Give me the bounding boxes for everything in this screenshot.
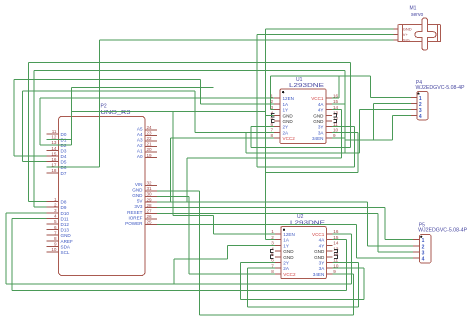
pin 3 of P5 bbox=[413, 251, 420, 253]
svg-text:1: 1 bbox=[422, 238, 425, 244]
wire 5V horizontal long bbox=[157, 201, 368, 203]
svg-text:VCC1: VCC1 bbox=[311, 96, 324, 101]
svg-text:2: 2 bbox=[271, 235, 274, 240]
pin 1 of P4 bbox=[411, 96, 417, 98]
servo body divider right bbox=[436, 25, 438, 42]
svg-text:GND: GND bbox=[283, 119, 294, 124]
wire U2 VCC1 drop bbox=[350, 234, 352, 284]
svg-text:8: 8 bbox=[54, 236, 57, 241]
svg-text:2A: 2A bbox=[283, 266, 290, 271]
component P4 connector body bbox=[417, 92, 428, 120]
pin 3 D10 of P2 bbox=[47, 212, 59, 214]
wire U1 VCC1 hook bbox=[332, 97, 339, 99]
svg-text:6: 6 bbox=[54, 225, 57, 230]
svg-text:GND: GND bbox=[313, 113, 324, 118]
pin 1 D8 of P2 bbox=[47, 201, 59, 203]
wire U2 3Y hook bbox=[332, 262, 358, 264]
wire servo V+ horizontal bbox=[257, 33, 394, 35]
svg-text:28: 28 bbox=[147, 203, 153, 208]
svg-text:D9: D9 bbox=[61, 205, 67, 210]
wire D1 to riser bbox=[47, 138, 72, 140]
wire U2 1A feed bbox=[266, 239, 275, 241]
svg-text:3: 3 bbox=[419, 108, 422, 114]
wire U2 3A hook bbox=[332, 267, 364, 269]
wire P5 pin3 drop bbox=[377, 213, 379, 252]
svg-text:GND: GND bbox=[283, 255, 294, 260]
svg-text:3: 3 bbox=[54, 208, 57, 213]
wire D11 bottom horizontal bbox=[12, 289, 347, 291]
pin 13 GND of U1 bbox=[326, 114, 332, 116]
pin 9 34EN of U2 bbox=[326, 273, 332, 275]
wire mid m2 bbox=[246, 152, 360, 154]
wire D2 mid branch bbox=[72, 110, 266, 112]
wire D4 to U1 1A bbox=[201, 103, 274, 105]
wire D8 long drop bbox=[350, 62, 352, 147]
svg-text:7: 7 bbox=[54, 230, 57, 235]
wire D4 vertical left bbox=[13, 80, 15, 157]
pin 8 VCC2 of U2 bbox=[275, 273, 281, 275]
svg-text:10: 10 bbox=[333, 128, 339, 133]
svg-text:SCL: SCL bbox=[61, 250, 70, 255]
wire U2 1Y jog bbox=[174, 258, 227, 260]
svg-text:9: 9 bbox=[54, 242, 57, 247]
wire U1 VCC1 riser bbox=[338, 76, 340, 98]
wire D2 horizontal to U1 12EN bbox=[40, 97, 274, 99]
pin 11 3Y of U1 bbox=[326, 126, 332, 128]
pin 14 D3 of P2 bbox=[47, 150, 59, 152]
pin 3 of P4 bbox=[411, 109, 417, 111]
svg-text:4: 4 bbox=[419, 114, 422, 120]
svg-text:U1: U1 bbox=[296, 77, 303, 83]
wire U1 1Y hook bbox=[271, 109, 274, 111]
wire U2 VCC1 hook bbox=[332, 233, 351, 235]
pin 13 GND of U2 bbox=[326, 250, 332, 252]
wire GND pin30 bbox=[157, 196, 189, 198]
wire P4 pin1 riser bbox=[370, 76, 372, 98]
GND bracket U2 pin12 bbox=[334, 255, 337, 258]
wire D5 riser down bbox=[194, 91, 196, 132]
pin 6 2Y of U2 bbox=[275, 261, 281, 263]
wire U2 2A feed bbox=[248, 267, 275, 269]
servo pin GND bbox=[394, 28, 399, 30]
pin 9 SDA of P2 bbox=[47, 245, 59, 247]
svg-text:M1: M1 bbox=[410, 5, 417, 11]
svg-text:2: 2 bbox=[422, 245, 425, 251]
svg-text:14: 14 bbox=[333, 241, 339, 246]
wire U1 2A drop bbox=[245, 132, 247, 153]
wire U1 3A hook bbox=[332, 131, 358, 133]
svg-text:22: 22 bbox=[147, 136, 153, 141]
wire servo GND drop bbox=[265, 29, 267, 240]
svg-text:1A: 1A bbox=[283, 238, 290, 243]
wire D8 horizontal top bbox=[28, 61, 350, 63]
pin 12 D1 of P2 bbox=[47, 138, 59, 140]
wire D8 to pin bbox=[28, 201, 46, 203]
pin 15 4A of U1 bbox=[326, 103, 332, 105]
svg-text:A2: A2 bbox=[137, 143, 143, 148]
svg-text:12EN: 12EN bbox=[283, 232, 295, 237]
pin 20 A1 of P2 bbox=[145, 151, 157, 153]
wire U2 3A riser bbox=[363, 268, 365, 299]
svg-text:D8: D8 bbox=[61, 200, 67, 205]
svg-text:15: 15 bbox=[333, 235, 339, 240]
wire 3V3 horizontal long bbox=[157, 207, 385, 209]
svg-text:GND: GND bbox=[61, 233, 72, 238]
pin 14 4Y of U2 bbox=[326, 244, 332, 246]
svg-text:12EN: 12EN bbox=[283, 96, 295, 101]
wire D9 horizontal top bbox=[34, 69, 345, 71]
svg-text:32: 32 bbox=[147, 181, 153, 186]
svg-text:IOREF: IOREF bbox=[128, 215, 142, 220]
svg-text:31: 31 bbox=[147, 186, 153, 191]
wire GND bottom horizontal bbox=[200, 314, 354, 316]
wire D1 long horizontal bbox=[72, 86, 214, 88]
svg-text:L293DNE: L293DNE bbox=[290, 220, 326, 226]
pin 23 A4 of P2 bbox=[145, 134, 157, 136]
pin 16 D5 of P2 bbox=[47, 161, 59, 163]
wire U1 34EN hook bbox=[332, 137, 345, 139]
wire U2 2Y drop bbox=[240, 263, 242, 300]
wire P5 pin3 feed bbox=[378, 251, 413, 253]
wire U1 4Y drop bbox=[341, 110, 343, 159]
wire U1 3A drop bbox=[357, 132, 359, 172]
wire U2 4A drop bbox=[346, 240, 348, 291]
svg-text:1Y: 1Y bbox=[283, 243, 289, 248]
pin 11 3Y of U2 bbox=[326, 261, 332, 263]
wire 5V riser to U1 VCC2 bbox=[170, 138, 172, 202]
svg-text:10: 10 bbox=[51, 247, 57, 252]
svg-text:20: 20 bbox=[147, 147, 153, 152]
GND bracket U1 pin12 bbox=[333, 119, 336, 122]
wire D2 drop mid bbox=[172, 111, 174, 215]
svg-text:25: 25 bbox=[147, 220, 153, 225]
svg-text:16: 16 bbox=[333, 93, 339, 98]
pin 1 of P5 bbox=[413, 239, 420, 241]
svg-text:AREF: AREF bbox=[61, 239, 73, 244]
wire bottom b4 bbox=[248, 306, 359, 308]
wire GND30 drop to U2 VCC2 bbox=[188, 197, 190, 274]
wire D2 vertical left bbox=[39, 98, 41, 145]
wire U1 4Y hook bbox=[332, 109, 342, 111]
svg-text:3Y: 3Y bbox=[318, 125, 324, 130]
servo horn cross bbox=[415, 18, 436, 50]
svg-text:WJ2EDGVC-5.08-4P: WJ2EDGVC-5.08-4P bbox=[416, 85, 466, 91]
wire D10 vertical left bbox=[5, 213, 7, 284]
svg-text:GND: GND bbox=[313, 119, 324, 124]
svg-text:WJ2EDGVC-5.08-4P: WJ2EDGVC-5.08-4P bbox=[418, 228, 468, 234]
pin 4 of P4 bbox=[411, 115, 417, 117]
svg-text:18: 18 bbox=[51, 168, 57, 173]
wire U1 2Y bbox=[251, 126, 274, 128]
svg-text:7: 7 bbox=[270, 128, 273, 133]
pin 5 D12 of P2 bbox=[47, 223, 59, 225]
svg-text:5: 5 bbox=[54, 219, 57, 224]
wire GND pin31 bbox=[157, 190, 200, 192]
svg-text:U2: U2 bbox=[297, 214, 304, 220]
pin 19 A0 of P2 bbox=[145, 157, 157, 159]
svg-text:D3: D3 bbox=[61, 149, 67, 154]
wire P4 pin3 riser bbox=[359, 110, 361, 154]
pin 28 3V3 of P2 bbox=[145, 207, 157, 209]
svg-text:D10: D10 bbox=[61, 211, 70, 216]
svg-text:POWER: POWER bbox=[125, 221, 143, 226]
svg-text:26: 26 bbox=[147, 214, 153, 219]
svg-text:9: 9 bbox=[333, 133, 336, 138]
wire D2 to pin bbox=[40, 144, 72, 146]
GND bracket U1 pin5 bbox=[272, 119, 275, 122]
wire bottom b3 bbox=[241, 299, 364, 301]
pin 2 of P5 bbox=[413, 245, 420, 247]
svg-text:GND: GND bbox=[132, 193, 143, 198]
pin 1 dot P4 bbox=[417, 93, 419, 95]
pin 7 2A of U1 bbox=[274, 131, 280, 133]
svg-text:15: 15 bbox=[333, 99, 339, 104]
svg-text:13: 13 bbox=[333, 246, 339, 251]
wire D5 to pin bbox=[22, 161, 46, 163]
svg-text:A0: A0 bbox=[137, 154, 143, 159]
svg-text:L293DNE: L293DNE bbox=[289, 83, 325, 89]
pin 27 RESET of P2 bbox=[145, 212, 157, 214]
svg-text:11: 11 bbox=[52, 129, 57, 134]
pin 6 2Y of U1 bbox=[274, 126, 280, 128]
wire D9 vertical left bbox=[33, 70, 35, 207]
svg-text:A5: A5 bbox=[137, 126, 143, 131]
pin 2 1A of U1 bbox=[274, 103, 280, 105]
wire D8 vertical left bbox=[27, 62, 29, 201]
wire GND bus vertical bbox=[199, 191, 201, 315]
svg-text:VCC2: VCC2 bbox=[283, 272, 296, 277]
wire D4 to pin bbox=[14, 155, 47, 157]
svg-text:1A: 1A bbox=[283, 102, 290, 107]
svg-text:27: 27 bbox=[147, 209, 153, 214]
GND bracket U2 pin5 bbox=[270, 255, 273, 258]
svg-text:GND: GND bbox=[283, 113, 294, 118]
wire U2 VCC2 feed bbox=[189, 273, 275, 275]
wire U1 2Y drop bbox=[250, 127, 252, 148]
wire D10 to pin bbox=[6, 212, 47, 214]
wire D11 vertical left bbox=[11, 218, 13, 290]
svg-text:30: 30 bbox=[147, 192, 153, 197]
pin 11 D0 of P2 bbox=[47, 133, 59, 135]
wire D9 riser to U1 4A bbox=[344, 70, 346, 153]
pin 10 SCL of P2 bbox=[47, 251, 59, 253]
pin 1 12EN of U2 bbox=[275, 233, 281, 235]
pin 12 GND of U1 bbox=[326, 120, 332, 122]
pin 5 GND of U1 bbox=[274, 120, 280, 122]
wire mid m3 bbox=[187, 157, 342, 159]
pin 10 3A of U2 bbox=[326, 267, 332, 269]
svg-text:3A: 3A bbox=[318, 130, 325, 135]
svg-text:24: 24 bbox=[147, 125, 153, 130]
pin 29 5V of P2 bbox=[145, 201, 157, 203]
svg-text:3Y: 3Y bbox=[319, 260, 325, 265]
pin 16 VCC1 of U2 bbox=[326, 233, 332, 235]
wire U2 2A drop bbox=[247, 268, 249, 307]
svg-text:12: 12 bbox=[51, 135, 57, 140]
component P2 UNO_R3 body bbox=[59, 116, 146, 275]
svg-text:4A: 4A bbox=[319, 238, 326, 243]
svg-text:GND: GND bbox=[403, 26, 412, 31]
svg-text:A1: A1 bbox=[137, 149, 143, 154]
pin 8 AREF of P2 bbox=[47, 240, 59, 242]
svg-text:A3: A3 bbox=[137, 137, 143, 142]
wire servo V+ drop bbox=[256, 34, 258, 167]
svg-text:GND: GND bbox=[314, 255, 325, 260]
pin 14 4Y of U1 bbox=[326, 109, 332, 111]
svg-text:VIN: VIN bbox=[135, 182, 143, 187]
wire mid m5 bbox=[266, 172, 359, 174]
pin 4 of P5 bbox=[413, 257, 420, 259]
wire U2 1Y drop bbox=[226, 245, 228, 259]
servo pin SIG bbox=[394, 39, 399, 41]
svg-text:4Y: 4Y bbox=[318, 108, 324, 113]
svg-text:4: 4 bbox=[271, 246, 274, 251]
wire P4 pin4 riser bbox=[391, 116, 393, 141]
pin 6 D13 of P2 bbox=[47, 229, 59, 231]
svg-text:34EN: 34EN bbox=[312, 136, 324, 141]
wire U1 1Y riser bbox=[270, 76, 272, 110]
pin 13 D2 of P2 bbox=[47, 144, 59, 146]
pin 9 34EN of U1 bbox=[326, 137, 332, 139]
pin 15 D4 of P2 bbox=[47, 155, 59, 157]
pin 8 VCC2 of U1 bbox=[274, 137, 280, 139]
svg-text:1Y: 1Y bbox=[283, 108, 289, 113]
wire U2 12EN feed bbox=[213, 233, 274, 235]
svg-text:8: 8 bbox=[271, 269, 274, 274]
pin 1 dot U1 bbox=[282, 91, 284, 93]
GND bracket U1 pin4 bbox=[272, 114, 275, 117]
svg-text:D0: D0 bbox=[61, 132, 67, 137]
svg-text:8: 8 bbox=[270, 133, 273, 138]
component M1 servo body bbox=[398, 25, 441, 42]
svg-text:4Y: 4Y bbox=[319, 243, 325, 248]
wire U2 1Y drop2 bbox=[173, 259, 175, 284]
wire D4 horizontal top bbox=[14, 79, 201, 81]
wire drop to U2 12EN bbox=[212, 216, 214, 235]
wire RESET horizontal long bbox=[157, 212, 378, 214]
wire D2-D1 riser bbox=[71, 87, 73, 145]
svg-text:9: 9 bbox=[333, 269, 336, 274]
svg-text:13: 13 bbox=[51, 140, 57, 145]
component U2 L293DNE body bbox=[281, 227, 327, 279]
svg-text:23: 23 bbox=[147, 131, 153, 136]
svg-text:2: 2 bbox=[54, 202, 57, 207]
svg-text:4: 4 bbox=[54, 214, 57, 219]
svg-text:2Y: 2Y bbox=[283, 260, 289, 265]
wire mid m4 bbox=[257, 166, 355, 168]
pin 31 GND of P2 bbox=[145, 190, 157, 192]
wire U1 3Y hook bbox=[332, 126, 354, 128]
svg-text:UNO_R3: UNO_R3 bbox=[101, 110, 131, 116]
servo pin V+ bbox=[394, 33, 399, 35]
svg-text:D5: D5 bbox=[61, 160, 67, 165]
svg-text:2A: 2A bbox=[283, 130, 290, 135]
pin 2 of P4 bbox=[411, 103, 417, 105]
svg-text:D12: D12 bbox=[61, 222, 70, 227]
pin 18 D7 of P2 bbox=[47, 172, 59, 174]
wire P5 pin2 drop bbox=[367, 202, 369, 246]
pin 1 dot P5 bbox=[420, 236, 422, 238]
pin 10 3A of U1 bbox=[326, 131, 332, 133]
wire P5 pin4 feed bbox=[356, 257, 413, 259]
wire U1 pin4 hook bbox=[266, 114, 274, 116]
component U1 L293DNE body bbox=[280, 89, 326, 144]
svg-text:3: 3 bbox=[422, 251, 425, 257]
wire P4 pin1 feed bbox=[371, 96, 411, 98]
wire P4 pin2 riser bbox=[373, 104, 375, 141]
GND bracket U2 pin13 bbox=[334, 249, 337, 252]
svg-text:D7: D7 bbox=[61, 171, 67, 176]
svg-text:D11: D11 bbox=[61, 216, 70, 221]
svg-text:D13: D13 bbox=[61, 228, 70, 233]
svg-text:14: 14 bbox=[51, 146, 57, 151]
pin 2 D9 of P2 bbox=[47, 206, 59, 208]
pin 5 GND of U2 bbox=[275, 256, 281, 258]
svg-text:VCC1: VCC1 bbox=[312, 232, 325, 237]
svg-text:RESET: RESET bbox=[127, 210, 143, 215]
pin 4 D11 of P2 bbox=[47, 217, 59, 219]
wire P4 pin4 feed bbox=[392, 115, 410, 117]
svg-text:GND: GND bbox=[132, 187, 143, 192]
svg-text:4: 4 bbox=[422, 257, 425, 263]
wire 1Y top horizontal bbox=[271, 75, 371, 77]
wire D11 to pin bbox=[12, 217, 47, 219]
wire D5 vertical left bbox=[21, 91, 23, 161]
wire P4 pin2 feed bbox=[374, 103, 411, 105]
svg-text:5V: 5V bbox=[137, 199, 144, 204]
pin 32 VIN of P2 bbox=[145, 184, 157, 186]
component P5 connector body bbox=[420, 235, 431, 263]
wire U1 pin15 hook bbox=[332, 103, 345, 105]
svg-text:A4: A4 bbox=[137, 132, 143, 137]
svg-text:SIG: SIG bbox=[403, 37, 410, 42]
wire P5 pin2 feed bbox=[368, 245, 413, 247]
wire U2 2Y feed bbox=[241, 262, 275, 264]
pin 3 1Y of U2 bbox=[275, 244, 281, 246]
wire under-U1 m6 bbox=[345, 139, 392, 141]
svg-text:3A: 3A bbox=[319, 266, 326, 271]
svg-text:16: 16 bbox=[51, 157, 57, 162]
svg-text:7: 7 bbox=[271, 263, 274, 268]
svg-text:P2: P2 bbox=[101, 104, 107, 110]
svg-text:VCC2: VCC2 bbox=[283, 136, 296, 141]
wire POWER horizontal long bbox=[157, 224, 356, 226]
pin 25 POWER of P2 bbox=[145, 224, 157, 226]
wire U1 3Y drop bbox=[353, 127, 355, 167]
svg-text:GND: GND bbox=[314, 249, 325, 254]
pin 21 A2 of P2 bbox=[145, 145, 157, 147]
svg-text:SDA: SDA bbox=[61, 244, 71, 249]
svg-text:4A: 4A bbox=[318, 102, 325, 107]
svg-text:34EN: 34EN bbox=[313, 272, 325, 277]
svg-text:14: 14 bbox=[333, 105, 339, 110]
svg-text:15: 15 bbox=[51, 151, 57, 156]
wire D9 to pin bbox=[34, 206, 46, 208]
wire D5 horizontal top bbox=[22, 90, 195, 92]
svg-text:3: 3 bbox=[271, 241, 274, 246]
wire D6 to pin bbox=[47, 166, 100, 168]
svg-text:D4: D4 bbox=[61, 154, 67, 159]
svg-text:29: 29 bbox=[147, 197, 153, 202]
wire P5 pin4 drop bbox=[355, 225, 357, 259]
pin 7 2A of U2 bbox=[275, 267, 281, 269]
svg-text:V+: V+ bbox=[403, 32, 409, 37]
wire U2 4A hook bbox=[332, 239, 346, 241]
svg-text:GND: GND bbox=[283, 249, 294, 254]
wire U2 3Y riser bbox=[358, 263, 360, 307]
svg-text:servo: servo bbox=[411, 12, 423, 18]
svg-text:3V3: 3V3 bbox=[134, 204, 143, 209]
